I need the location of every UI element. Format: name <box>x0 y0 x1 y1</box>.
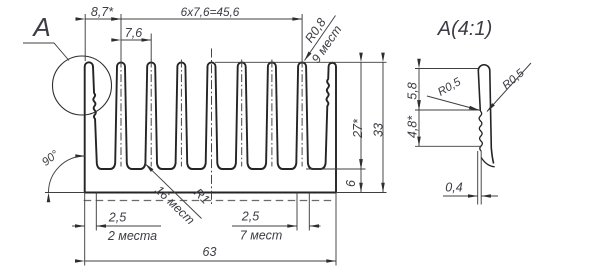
fin centerlines <box>120 60 122 167</box>
dimension 63 <box>85 260 336 262</box>
leader R0,5 left <box>427 96 479 110</box>
leader R1 16 мест <box>145 164 201 219</box>
extension lines top <box>84 14 86 61</box>
svg-text:A(4:1): A(4:1) <box>437 18 492 40</box>
svg-text:63: 63 <box>203 245 217 259</box>
svg-text:0,4: 0,4 <box>445 181 462 195</box>
svg-text:7 мест: 7 мест <box>240 229 282 243</box>
heatsink profile outline <box>85 62 336 192</box>
dimension 4,8* <box>418 110 420 146</box>
dimension 7,6 <box>121 39 151 41</box>
dimension 27* <box>360 62 362 169</box>
dimension 0,4 <box>443 195 478 197</box>
detail extension lines left <box>415 68 478 70</box>
svg-text:2 места: 2 места <box>107 229 157 243</box>
detail 0,4 extension lines <box>477 151 479 205</box>
svg-text:8,7*: 8,7* <box>91 5 114 19</box>
leader R0,5 right <box>487 63 531 112</box>
90 degree extension <box>45 192 85 194</box>
svg-text:A: A <box>31 12 50 42</box>
svg-text:33: 33 <box>372 123 386 137</box>
label A leader <box>23 43 69 61</box>
dimension 2,5 2 места <box>72 225 85 227</box>
svg-text:2,5: 2,5 <box>241 210 259 224</box>
detail bottom break <box>481 158 495 167</box>
svg-text:27*: 27* <box>351 118 365 139</box>
dimension 8,7* <box>85 18 121 20</box>
dimension 5,8 <box>418 69 420 111</box>
part centerline <box>211 49 213 206</box>
dimension 6 <box>360 169 362 193</box>
dimension 33 <box>382 62 384 192</box>
svg-text:6: 6 <box>344 180 358 187</box>
detail circle A <box>53 56 112 115</box>
detail fin outline <box>478 65 493 164</box>
dimension 2,5 7 мест <box>232 225 297 227</box>
dimension 6x7,6=45,6 <box>121 18 302 20</box>
dashed gauge line <box>84 200 336 202</box>
svg-text:2,5: 2,5 <box>108 211 126 225</box>
detail serration <box>479 111 482 151</box>
svg-text:6x7,6=45,6: 6x7,6=45,6 <box>181 5 240 19</box>
extension lines bottom <box>84 193 86 266</box>
extension lines right <box>215 61 387 63</box>
svg-text:5,8: 5,8 <box>406 82 420 99</box>
svg-text:7,6: 7,6 <box>125 26 142 40</box>
leader R0,8 9 мест <box>305 16 336 61</box>
dimension 90° arc <box>49 156 86 193</box>
svg-text:4,8*: 4,8* <box>406 115 420 138</box>
